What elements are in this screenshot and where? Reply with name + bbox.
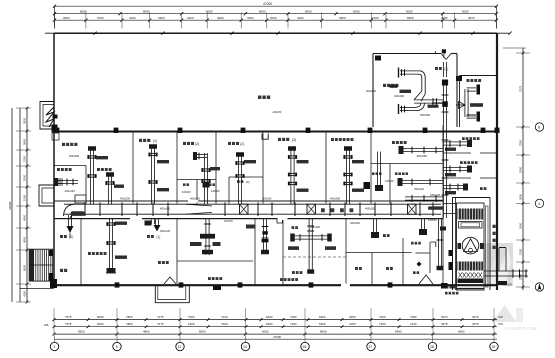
- duct drop x379: [376, 152, 378, 185]
- svg-text:180x120: 180x120: [430, 193, 441, 197]
- AHU room west wall inner: [455, 198, 457, 291]
- dim terminator verticals: [54, 6, 56, 28]
- svg-text:100x60: 100x60: [428, 218, 437, 222]
- wall west: [53, 33, 55, 286]
- room label 液是 (3): [237, 180, 240, 183]
- dimension line top row3: [55, 19, 497, 21]
- room label 玻璃钢壳粘光: [331, 138, 334, 141]
- ground line left of stairs: [20, 288, 54, 290]
- dimension line left mid: [19, 108, 21, 302]
- duct branch x110 参峰平台: [107, 176, 109, 205]
- main supply duct in corridor: [64, 203, 441, 205]
- column on mid wall x=243: [241, 128, 246, 133]
- room label 服装制衣间: [88, 252, 91, 255]
- corridor south wall: [54, 218, 443, 220]
- partition sub room 成型间 left: [228, 177, 230, 204]
- small stub below top-left corner: [52, 133, 59, 140]
- room label 机修房: [292, 271, 295, 274]
- room label 纯水: [292, 226, 295, 229]
- duct branch x92 原料仓库: [89, 150, 91, 205]
- partition A: [132, 132, 134, 204]
- duct x437 down long: [437, 219, 439, 266]
- svg-text:7380: 7380: [410, 315, 417, 319]
- svg-text:1400: 1400: [188, 322, 195, 326]
- duct x375 down: [372, 219, 374, 232]
- flanged stub upper left: [400, 70, 419, 72]
- stair block: [29, 249, 53, 281]
- room label 气阀 (1): [60, 235, 63, 238]
- svg-text:400x200: 400x200: [69, 154, 80, 158]
- wall top thin dim extension: [45, 32, 509, 34]
- partition sub rooms 压胶间 top: [177, 179, 216, 181]
- svg-text:6400: 6400: [266, 315, 273, 319]
- long duct x111: [108, 219, 110, 268]
- svg-text:7340: 7340: [410, 322, 417, 326]
- junction box at central duct: [442, 101, 448, 107]
- svg-text:8: 8: [538, 126, 540, 130]
- riser duct right of AHU room: [498, 248, 500, 271]
- door jamb 男更衣: [431, 242, 436, 247]
- fire damper box 3: [408, 204, 417, 214]
- door gap bottom wall x341: [341, 284, 350, 287]
- svg-text:(2): (2): [195, 142, 199, 146]
- svg-text:13: 13: [243, 345, 247, 349]
- svg-text:8000: 8000: [143, 10, 150, 14]
- column on bottom wall x=240: [238, 282, 243, 287]
- dimension line bottom row3: [54, 333, 497, 335]
- svg-text:47000: 47000: [273, 335, 281, 339]
- svg-text:7400: 7400: [188, 315, 195, 319]
- watermark white arrow: [487, 246, 511, 286]
- threshold black bottom wall: [213, 286, 221, 291]
- room label 昔次: [386, 267, 389, 270]
- svg-text:1500: 1500: [23, 194, 27, 201]
- svg-text:100x60: 100x60: [211, 189, 220, 193]
- svg-text:320x250: 320x250: [350, 221, 361, 225]
- room label 参峰平台: [97, 168, 100, 171]
- diamond mark 纯水: [417, 262, 422, 267]
- svg-text:7475: 7475: [157, 315, 164, 319]
- room label 中间库 (1): [139, 139, 142, 142]
- column on east wall at mid: [495, 128, 500, 133]
- AHU room north wall: [453, 197, 491, 199]
- svg-text:7400: 7400: [221, 322, 228, 326]
- corridor east wall: [442, 125, 444, 219]
- svg-text:315x15: 315x15: [385, 179, 394, 183]
- room label 猪肉库: [258, 96, 261, 100]
- room label 男次: [355, 267, 358, 270]
- svg-text:6990: 6990: [395, 329, 402, 333]
- duct branch x206 压胶间 with elbow cap: [196, 153, 207, 155]
- watermark gray box: [484, 243, 513, 286]
- corridor label: [321, 208, 325, 212]
- right rooms duct 1: [443, 141, 467, 143]
- room label 气阀 (3): [435, 67, 438, 70]
- column on mid wall x=483: [481, 128, 486, 133]
- column on mid wall x=116: [114, 128, 119, 133]
- AHU fan circle: [462, 237, 479, 254]
- north wall end stub: [435, 51, 437, 54]
- svg-text:-600x250: -600x250: [416, 154, 427, 158]
- svg-text:4700: 4700: [97, 16, 104, 20]
- dimension line top overall 47000: [55, 5, 497, 7]
- svg-text:3475: 3475: [472, 315, 479, 319]
- svg-text:7575: 7575: [519, 85, 523, 92]
- room label 革器具仓浆: [460, 161, 463, 164]
- svg-text:19: 19: [492, 345, 496, 349]
- duct x265 down with dampers: [262, 219, 264, 250]
- AHU unit right rail: [486, 206, 489, 287]
- partition horizontal y261 left-center: [177, 260, 253, 262]
- svg-text:8000: 8000: [259, 10, 266, 14]
- vent mark above notch: [442, 49, 446, 53]
- room label 伟具: [183, 183, 186, 186]
- svg-text:6000: 6000: [462, 10, 469, 14]
- label lozenge right end: [428, 206, 443, 209]
- svg-text:(1): (1): [69, 235, 73, 239]
- svg-text:4500: 4500: [23, 214, 27, 221]
- door gap corridor south x130: [130, 217, 142, 220]
- duct branch x240 成型间: [237, 156, 239, 205]
- svg-text:4300: 4300: [297, 16, 304, 20]
- duct x207.5 down with caps: [205, 219, 207, 255]
- partition small right: [429, 242, 431, 273]
- svg-text:18: 18: [430, 345, 434, 349]
- valve branch x157: [154, 219, 156, 225]
- door gap corridor south x277: [278, 217, 288, 220]
- svg-text:4150: 4150: [247, 16, 254, 20]
- svg-text:16: 16: [303, 345, 307, 349]
- room label 全空气房: [445, 292, 448, 295]
- svg-text:7575: 7575: [65, 315, 72, 319]
- svg-text:3000: 3000: [270, 16, 277, 20]
- svg-text:17: 17: [369, 345, 373, 349]
- svg-text:5400: 5400: [266, 322, 273, 326]
- svg-text:400x200: 400x200: [310, 225, 321, 229]
- partition D: [262, 132, 264, 204]
- sub room north wall: [460, 75, 497, 77]
- dimension line bottom row2: [54, 326, 497, 328]
- svg-text:6000: 6000: [406, 10, 413, 14]
- partition 服装间 right: [176, 219, 178, 286]
- svg-text:7400: 7400: [221, 315, 228, 319]
- svg-text:5500: 5500: [407, 16, 414, 20]
- room label 铜底 (1): [147, 235, 150, 238]
- svg-text:47000: 47000: [263, 2, 272, 6]
- AHU room west wall outer: [452, 198, 454, 291]
- svg-text:1500: 1500: [372, 16, 379, 20]
- svg-text:3400: 3400: [187, 16, 194, 20]
- dashed line 机修房: [283, 256, 346, 258]
- svg-text:6000: 6000: [262, 329, 269, 333]
- partition 革器具件放 bottom: [443, 152, 471, 154]
- inner room north wall left part: [373, 53, 441, 55]
- svg-text:-100x50: -100x50: [262, 197, 272, 201]
- svg-text:7400: 7400: [290, 315, 297, 319]
- horizontal run to center duct: [414, 99, 443, 101]
- horizontal duct near corridor right: [405, 196, 443, 198]
- grid bubble bottom 16: [301, 342, 309, 350]
- svg-text:6000: 6000: [97, 322, 104, 326]
- svg-text:7575: 7575: [65, 322, 72, 326]
- sub room west wall: [459, 76, 461, 128]
- svg-text:8000: 8000: [23, 264, 27, 271]
- svg-text:2500: 2500: [519, 166, 523, 173]
- window bay mid-left: [39, 185, 54, 206]
- svg-text:400x200: 400x200: [394, 94, 405, 98]
- svg-text:400x200: 400x200: [366, 89, 377, 93]
- partition F: [370, 132, 372, 204]
- room label 压胶间(2): [183, 142, 186, 145]
- room label 胶坐底房: [208, 277, 211, 280]
- svg-text:7400: 7400: [379, 315, 386, 319]
- svg-text:3400: 3400: [129, 16, 136, 20]
- svg-text:208: 208: [44, 323, 49, 327]
- partition 机修房 left: [282, 219, 284, 286]
- dark labels beside duct: [190, 242, 202, 246]
- duct x310.7 with cross branch: [308, 219, 310, 269]
- door gap corridor north x188: [188, 200, 198, 202]
- svg-text:3000: 3000: [23, 117, 27, 124]
- dark labels: [400, 90, 412, 93]
- room label 工器具存放: [280, 278, 283, 281]
- partition E: [325, 132, 327, 204]
- svg-text:500x250: 500x250: [432, 101, 443, 105]
- svg-text:8000: 8000: [320, 329, 327, 333]
- grid bubble bottom 11: [176, 342, 184, 350]
- grid bubble right arrow: [535, 283, 543, 291]
- partition horizontal y253 right: [415, 252, 430, 254]
- central vertical duct: [442, 82, 444, 218]
- AHU black band: [458, 279, 484, 284]
- grid bubble right 4: [535, 199, 543, 207]
- svg-text:400x200: 400x200: [160, 206, 171, 210]
- svg-text:100x60: 100x60: [182, 190, 191, 194]
- svg-text:250x120: 250x120: [160, 229, 171, 233]
- svg-text:1: 1: [53, 345, 55, 349]
- room label 成型间(2): [228, 142, 231, 145]
- svg-text:6990: 6990: [458, 329, 465, 333]
- svg-text:(1): (1): [153, 139, 157, 143]
- svg-text:8000: 8000: [305, 10, 312, 14]
- fire damper box 1: [240, 204, 249, 214]
- svg-text:1500: 1500: [23, 155, 27, 162]
- room label 纯水: [413, 271, 416, 274]
- wall bottom: [54, 284, 497, 286]
- right rooms duct 3: [443, 184, 463, 186]
- svg-text:(3): (3): [444, 67, 448, 71]
- inner room west wall: [372, 54, 374, 128]
- inner room north wall right part: [451, 53, 457, 55]
- room label 机械房: [158, 261, 161, 264]
- room label 大芝居: [446, 286, 449, 289]
- room label 鞋胶灵货: [392, 141, 395, 144]
- valve arrow into duct: [456, 104, 465, 106]
- notch left: [441, 54, 446, 60]
- AHU window band: [459, 222, 483, 229]
- svg-text:4500: 4500: [23, 236, 27, 243]
- watermark faint triangle bottom: [492, 305, 516, 322]
- column on mid wall x=57: [55, 128, 60, 133]
- partition AHU west: [442, 219, 444, 286]
- grid bubble bottom 18: [428, 342, 436, 350]
- duct elbow left end turning down: [64, 204, 76, 218]
- column on bottom wall x=311: [309, 282, 314, 287]
- column on mid wall x=308: [306, 128, 311, 133]
- svg-text:3000: 3000: [519, 193, 523, 200]
- partition G: [389, 164, 391, 204]
- svg-text:7500: 7500: [519, 139, 523, 146]
- svg-text:400x200: 400x200: [365, 206, 376, 210]
- partition sub rooms 压胶间 mid: [196, 180, 198, 204]
- partition C: [215, 132, 217, 204]
- Y merge diagonals: [414, 91, 425, 101]
- dimension line left inner: [26, 108, 28, 302]
- right rooms duct 2: [443, 166, 467, 168]
- svg-text:6000: 6000: [353, 10, 360, 14]
- partition 革器具仓浆 bottom: [443, 177, 471, 179]
- stub duct into AHU room: [443, 203, 456, 205]
- duct branch x348 玻璃钢: [345, 150, 347, 205]
- partition horizontal y252.5: [346, 252, 412, 254]
- room label 中间站 (3): [278, 138, 281, 141]
- svg-text:3870: 3870: [468, 16, 475, 20]
- partition 男女: [371, 253, 373, 286]
- west wall black blobs: [449, 250, 453, 256]
- room label 革器具件放: [462, 137, 465, 140]
- wall mid horizontal: [54, 130, 497, 132]
- svg-text:250x200: 250x200: [420, 113, 431, 117]
- svg-text:(1): (1): [156, 235, 160, 239]
- svg-text:9: 9: [116, 345, 118, 349]
- door jamb below corridor x277: [277, 219, 282, 223]
- partition right mid horizontal: [371, 163, 443, 165]
- room label 片材胶浆: [383, 84, 386, 87]
- partition sub room 成型间 top: [229, 176, 263, 178]
- svg-text:11: 11: [178, 345, 182, 349]
- svg-text:40x750: 40x750: [224, 219, 233, 223]
- column inner room corner: [375, 56, 381, 61]
- room label 字电好货: [395, 172, 398, 175]
- svg-text:7400: 7400: [290, 322, 297, 326]
- label 空调机房 vertical: [493, 225, 496, 228]
- dark label x250: [246, 225, 256, 229]
- AHU outlet duct to right: [484, 270, 528, 272]
- horizontal duct lower right room: [401, 179, 443, 181]
- duct branch x153 中间库1: [150, 148, 152, 205]
- room label 郁胶货: [372, 172, 375, 175]
- room label 原料仓库: [62, 143, 65, 146]
- partition 工器具 left: [254, 219, 256, 286]
- svg-text:400x200: 400x200: [330, 197, 341, 201]
- small box bottom of 搬运设备 room: [75, 195, 86, 203]
- window bay upper with zigzag: [40, 102, 54, 130]
- column sub room corner: [456, 76, 462, 81]
- grid bubble right 8: [535, 123, 543, 131]
- duct branch x292 中间站: [290, 150, 292, 205]
- partition 搬运设备 top: [54, 165, 86, 167]
- column on mid wall x=425: [423, 128, 428, 133]
- svg-text:4800: 4800: [143, 329, 150, 333]
- svg-text:5800: 5800: [23, 138, 27, 145]
- svg-text:4: 4: [538, 202, 540, 206]
- dimension line left outer: [11, 108, 13, 302]
- grid bubble bottom 19: [490, 342, 498, 350]
- svg-text:(3): (3): [246, 180, 250, 184]
- column on bottom wall x=181: [179, 282, 184, 287]
- grid bubble bottom 9: [113, 342, 121, 350]
- svg-text:1500: 1500: [519, 248, 523, 255]
- label lozenge in duct: [71, 211, 86, 216]
- svg-text:250x120: 250x120: [414, 187, 425, 191]
- partition 冷库: [80, 219, 82, 286]
- svg-text:3475: 3475: [472, 322, 479, 326]
- svg-text:(3): (3): [292, 138, 296, 142]
- svg-text:(2): (2): [240, 142, 244, 146]
- wall top: [54, 32, 497, 34]
- svg-text:3050: 3050: [349, 315, 356, 319]
- door jamb below mid wall at partition x263: [262, 134, 268, 140]
- AHU dark hatch band top: [458, 209, 484, 220]
- horizontal duct 鞋胶员货 room: [402, 147, 443, 149]
- svg-text:3000: 3000: [519, 222, 523, 229]
- column on bottom wall x=117: [115, 282, 120, 287]
- svg-text:7800: 7800: [126, 315, 133, 319]
- AHU unit outline: [457, 203, 485, 290]
- svg-text:700: 700: [498, 315, 503, 319]
- svg-text:400x200: 400x200: [120, 197, 131, 201]
- svg-text:4100: 4100: [23, 290, 27, 297]
- partition 更衣: [402, 238, 404, 285]
- svg-text:4500: 4500: [339, 16, 346, 20]
- room label 商片: [383, 234, 386, 237]
- svg-text:-250x120: -250x120: [64, 189, 75, 193]
- svg-text:2500: 2500: [519, 273, 523, 280]
- AHU room east wall: [489, 198, 491, 291]
- room label 冷库: [60, 269, 63, 272]
- svg-text:8000: 8000: [199, 329, 206, 333]
- valve branch x70 气阀(1): [67, 215, 69, 226]
- partition B: [176, 132, 178, 204]
- grid bubble bottom 13: [241, 342, 249, 350]
- duct taper: [186, 204, 212, 214]
- svg-text:7475: 7475: [157, 322, 164, 326]
- right room assembly: [464, 89, 466, 117]
- room label 男更衣: [411, 242, 414, 245]
- svg-text:3000: 3000: [63, 16, 70, 20]
- svg-text:4750: 4750: [349, 322, 356, 326]
- grid bubble bottom 17: [367, 342, 375, 350]
- door swing bottom left: [164, 277, 176, 284]
- svg-text:3475: 3475: [441, 322, 448, 326]
- black door mark bottom: [441, 283, 448, 289]
- room label 加胶: [209, 183, 212, 186]
- fire damper box 2: [307, 204, 316, 214]
- svg-text:ZHULONG.COM: ZHULONG.COM: [505, 326, 537, 331]
- svg-text:5500: 5500: [23, 174, 27, 181]
- svg-text:1380: 1380: [441, 16, 448, 20]
- wall east: [496, 33, 498, 290]
- dimension line right: [522, 48, 524, 290]
- room label 搬运设备: [57, 168, 60, 171]
- duct x423 down: [420, 219, 422, 229]
- elbow down to run: [419, 71, 425, 94]
- svg-text:7800: 7800: [126, 322, 133, 326]
- grid axis line bottom: [54, 338, 497, 340]
- svg-text:6000: 6000: [97, 315, 104, 319]
- leader labels under branch: [288, 246, 299, 250]
- svg-text:320x200: 320x200: [466, 114, 477, 118]
